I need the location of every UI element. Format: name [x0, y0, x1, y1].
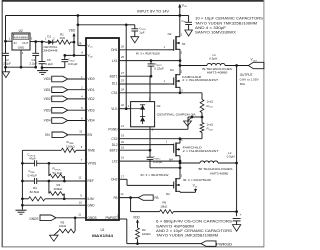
- ground R5 arrow: [50, 231, 59, 241]
- wire FB: [119, 192, 138, 199]
- svg-text:SANYO 4SP680M: SANYO 4SP680M: [156, 224, 195, 228]
- svg-text:AND 2 × 10µF CERAMIC CAPACITOR: AND 2 × 10µF CERAMIC CAPACITORS: [156, 229, 232, 233]
- svg-text:N1: N1: [182, 42, 186, 46]
- capacitor CIN: [180, 16, 192, 31]
- capacitor C2 2.2uF: [2, 41, 11, 67]
- svg-text:25: 25: [121, 55, 124, 59]
- resistor R6 10k: [131, 198, 237, 214]
- wire DL2 gate drive: [119, 140, 169, 145]
- svg-text:10kΩ: 10kΩ: [160, 205, 168, 209]
- wire PGND: [119, 117, 192, 129]
- transistor N1 high-side phase1: [168, 32, 186, 54]
- svg-text:N2: N2: [168, 32, 172, 36]
- svg-text:IR: 3 × IRLR7811W: IR: 3 × IRLR7811W: [141, 173, 169, 177]
- svg-text:100kΩ: 100kΩ: [142, 232, 152, 236]
- label OUTPUT spec: [240, 73, 259, 86]
- svg-text:VID3: VID3: [88, 108, 95, 112]
- svg-text:PGND: PGND: [108, 128, 118, 132]
- svg-text:TIME: TIME: [88, 149, 96, 153]
- svg-text:10kΩ: 10kΩ: [59, 224, 67, 228]
- svg-text:60A: 60A: [240, 82, 245, 86]
- svg-text:VID2: VID2: [44, 97, 51, 101]
- svg-text:DD: DD: [90, 56, 94, 58]
- capacitor C5 2.2uF: [39, 41, 54, 71]
- wire VIN to N1 drain: [179, 16, 181, 37]
- svg-text:N2: N2: [166, 192, 170, 196]
- svg-text:13: 13: [117, 214, 120, 218]
- wire LX1 node column: [179, 49, 182, 74]
- wire LX1: [119, 55, 181, 62]
- diode D1 CENTRAL CMHD4448: [42, 35, 58, 53]
- svg-text:BST1: BST1: [110, 74, 118, 78]
- transistor N2 high-side phase2: [166, 175, 183, 196]
- resistor RTIME 120k: [22, 140, 86, 152]
- svg-text:FB: FB: [155, 196, 159, 200]
- svg-text:VID1: VID1: [44, 88, 51, 92]
- svg-text:VID4: VID4: [88, 119, 95, 123]
- ground CIN: [185, 30, 193, 36]
- svg-text:51.1kΩ: 51.1kΩ: [53, 171, 63, 175]
- svg-text:0.5µH: 0.5µH: [227, 154, 235, 158]
- svg-text:GNDS: GNDS: [29, 217, 38, 221]
- svg-text:2 × ISL9N303AS3ST: 2 × ISL9N303AS3ST: [183, 149, 219, 153]
- svg-text:21: 21: [121, 124, 124, 128]
- wire D2 anode to BST rail: [149, 76, 151, 101]
- wire D2 cathode to BST2: [149, 127, 151, 150]
- wire PWRGD: [117, 214, 202, 245]
- wire LX2 node column: [179, 156, 182, 179]
- svg-text:N3: N3: [170, 68, 174, 72]
- svg-text:ILIM: ILIM: [88, 197, 94, 201]
- svg-text:6 × 680µF/4V OS-CON CAPACITORS: 6 × 680µF/4V OS-CON CAPACITORS: [156, 220, 232, 224]
- svg-text:LX2: LX2: [112, 159, 118, 163]
- svg-text:MAX8880: MAX8880: [14, 36, 29, 39]
- svg-text:REF: REF: [88, 179, 94, 183]
- label BI TECHNOLOGIES L1: [202, 67, 232, 74]
- capacitor CVPOS 47pF: [22, 153, 86, 167]
- resistor RCS2 1mohm: [200, 117, 214, 132]
- wire U2 GND stub: [20, 50, 22, 67]
- svg-text:HMT3-40880: HMT3-40880: [207, 70, 228, 74]
- pin names U1 right: [105, 48, 118, 220]
- svg-text:VID2: VID2: [88, 97, 95, 101]
- svg-text:D1: D1: [47, 35, 51, 39]
- ground C5 CVDD: [37, 70, 48, 72]
- svg-text:17: 17: [121, 175, 124, 179]
- label output capacitor note: [156, 220, 232, 238]
- input connector GNDS: [29, 212, 86, 221]
- svg-text:VID0: VID0: [88, 77, 95, 81]
- svg-text:VID0: VID0: [44, 77, 51, 81]
- wire DH1 gate drive: [119, 44, 169, 49]
- wire VLG: [119, 25, 131, 110]
- svg-text:120kΩ: 120kΩ: [66, 144, 76, 148]
- label FAIRCHILD phase1: [182, 75, 218, 82]
- resistor R2 100k pull-up: [133, 215, 151, 243]
- svg-text:GNDS: GNDS: [88, 216, 97, 220]
- resistor R1 10ohm: [57, 32, 75, 44]
- ground U2 bus: [2, 67, 9, 77]
- svg-text:0.5µH: 0.5µH: [209, 57, 217, 61]
- output connector PWRGD: [201, 241, 233, 246]
- wire VOUT rail: [235, 66, 238, 217]
- svg-text:VDD: VDD: [69, 29, 76, 33]
- svg-text:CC: CC: [90, 47, 94, 49]
- svg-text:OUT: OUT: [253, 60, 258, 62]
- label BI TECHNOLOGIES L2: [199, 167, 233, 175]
- svg-text:2.2µF: 2.2µF: [30, 62, 38, 66]
- wire DL1 gate drive: [119, 79, 169, 84]
- capacitor CVLG 1uF: [126, 25, 146, 37]
- label FAIRCHILD phase2: [183, 146, 219, 153]
- wire U2 ground bus: [4, 66, 37, 69]
- svg-text:+: +: [240, 213, 242, 217]
- svg-text:VLG: VLG: [111, 107, 118, 111]
- svg-text:GND: GND: [88, 203, 96, 207]
- ground CVLG: [131, 37, 139, 43]
- svg-text:TAIYO YUDEN JMK325BJ106MM: TAIYO YUDEN JMK325BJ106MM: [156, 234, 218, 238]
- svg-text:SANYO 16MV330WX: SANYO 16MV330WX: [195, 31, 237, 35]
- label input capacitor note: [195, 17, 263, 35]
- output connector FB: [138, 195, 158, 200]
- svg-text:18: 18: [121, 145, 124, 149]
- resistor R5 10k: [59, 218, 76, 233]
- svg-text:0.22µF: 0.22µF: [154, 66, 164, 70]
- capacitor COUT: [233, 213, 242, 224]
- wire VIN top rail: [6, 16, 180, 42]
- wire U2 OUT: [30, 41, 45, 43]
- pin names U1 left: [88, 44, 97, 220]
- svg-text:20: 20: [121, 140, 124, 144]
- svg-text:1µF: 1µF: [139, 31, 144, 35]
- wire U2 IN: [4, 40, 12, 43]
- svg-text:FB: FB: [113, 196, 117, 200]
- svg-text:2.2µF: 2.2µF: [3, 62, 11, 66]
- voltage regulator U2 MAX8880: [9, 29, 33, 55]
- controller U1 MAX1544: [86, 38, 119, 238]
- input connector EN: [45, 130, 86, 138]
- input connector VID2: [44, 95, 86, 102]
- svg-text:EN: EN: [45, 133, 50, 137]
- wire C5 CVDD ground link: [41, 66, 65, 69]
- wire VCC from VIN rail: [77, 14, 86, 45]
- svg-text:0.47µF: 0.47µF: [28, 174, 38, 178]
- svg-text:12: 12: [78, 176, 81, 180]
- input connector VID3: [44, 106, 86, 113]
- wire GND pin: [22, 200, 86, 205]
- svg-text:13: 13: [79, 130, 82, 134]
- svg-text:HMT3-40880: HMT3-40880: [210, 172, 228, 176]
- resistor RCS1 1mohm: [200, 99, 214, 117]
- wire CS2 current sense: [119, 132, 202, 140]
- svg-text:BST2: BST2: [110, 148, 118, 152]
- svg-text:INPUT: 8V TO 14V: INPUT: 8V TO 14V: [137, 10, 170, 14]
- capacitor CBST2 0.22uF: [147, 150, 163, 168]
- svg-text:CMHD4448: CMHD4448: [42, 49, 58, 53]
- svg-text:D2: D2: [157, 104, 161, 108]
- svg-text:0.22µF: 0.22µF: [153, 160, 163, 164]
- resistor RVPOS 51.1k: [49, 163, 65, 181]
- wire VDD to pin: [65, 54, 86, 56]
- label VOUT: [251, 58, 259, 63]
- resistor R4 82.5k: [22, 186, 86, 201]
- wire LX2: [119, 156, 181, 163]
- svg-text:VPOS: VPOS: [88, 162, 97, 166]
- capacitor CBST1 0.22uF: [148, 61, 164, 77]
- svg-text:10: 10: [79, 200, 82, 204]
- svg-text:CS1: CS1: [111, 91, 117, 95]
- svg-text:IR: 2 × IRLR7811W: IR: 2 × IRLR7811W: [183, 178, 211, 182]
- transistor N2 low-side phase1: [169, 68, 184, 93]
- svg-text:28: 28: [78, 41, 81, 45]
- svg-text:IN: IN: [14, 41, 17, 45]
- svg-text:OUT: OUT: [22, 41, 28, 45]
- svg-text:VID4: VID4: [44, 119, 51, 123]
- svg-text:DL2: DL2: [112, 143, 118, 147]
- svg-text:BI TECHNOLOGIES: BI TECHNOLOGIES: [199, 167, 233, 171]
- wire N2 source to CS1: [179, 87, 181, 93]
- capacitor CVDD 0.01uF: [61, 54, 77, 68]
- wire BST2: [119, 145, 151, 151]
- svg-text:CS2: CS2: [111, 137, 117, 141]
- diode D2 CENTRAL CMPSH-3A: [131, 98, 196, 132]
- svg-text:DH1: DH1: [111, 48, 118, 52]
- svg-text:26: 26: [121, 44, 124, 48]
- svg-text:MAX1544: MAX1544: [92, 234, 113, 238]
- inductor L1 0.5uH: [180, 53, 248, 65]
- wire CS1 current sense: [119, 88, 202, 100]
- capacitor CREF 0.47uF: [22, 169, 86, 184]
- wire DH2 gate drive: [119, 175, 169, 186]
- ground COUT: [232, 225, 240, 232]
- svg-text:LX1: LX1: [112, 59, 118, 63]
- output connector VOUT: [235, 62, 264, 68]
- svg-text:27: 27: [121, 71, 124, 75]
- svg-text:200kΩ: 200kΩ: [54, 187, 64, 191]
- svg-text:15: 15: [121, 156, 124, 160]
- wire BST1: [119, 71, 152, 78]
- svg-text:47pF: 47pF: [29, 157, 36, 161]
- wire VLG feed top: [77, 23, 128, 26]
- svg-text:VDD: VDD: [133, 215, 140, 219]
- svg-text:24: 24: [121, 88, 124, 92]
- svg-text:2.2µF: 2.2µF: [45, 62, 53, 66]
- transistor N4 low-side phase2: [169, 139, 184, 162]
- inductor L2 0.5uH: [180, 151, 237, 163]
- svg-text:AND 4 × 330µF: AND 4 × 330µF: [195, 26, 226, 30]
- svg-text:U1: U1: [100, 228, 104, 232]
- wire CBST2 to LX2 node: [150, 166, 181, 169]
- svg-text:10Ω: 10Ω: [59, 36, 65, 40]
- svg-text:10 × 10µF CERAMIC CAPACITORS: 10 × 10µF CERAMIC CAPACITORS: [195, 17, 263, 21]
- svg-text:U2: U2: [19, 29, 23, 33]
- svg-text:19: 19: [121, 133, 124, 137]
- svg-text:0.01µF: 0.01µF: [68, 62, 78, 66]
- wire left analog rail: [21, 150, 24, 209]
- resistor R3 200k: [49, 181, 66, 200]
- svg-text:VID3: VID3: [44, 108, 51, 112]
- capacitor C1 2.2uF: [30, 40, 40, 67]
- svg-text:EN: EN: [88, 133, 93, 137]
- ground left analog rail: [16, 209, 27, 211]
- node VDD supply arrow: [69, 29, 76, 57]
- input connector VID4: [44, 116, 86, 123]
- svg-text:0.8V to 1.55V: 0.8V to 1.55V: [240, 78, 259, 82]
- svg-text:OUTPUT: OUTPUT: [240, 73, 253, 77]
- svg-text:23: 23: [121, 79, 124, 83]
- ground PGND arrow: [188, 117, 193, 121]
- svg-text:VID1: VID1: [88, 88, 95, 92]
- svg-text:82.5kΩ: 82.5kΩ: [30, 190, 40, 194]
- svg-text:CENTRAL CMPSH-3A: CENTRAL CMPSH-3A: [157, 112, 196, 116]
- svg-text:IR: 3 × IRLR7811W: IR: 3 × IRLR7811W: [136, 52, 160, 56]
- svg-text:DH2: DH2: [111, 178, 118, 182]
- input connector VID1: [44, 86, 86, 93]
- svg-text:N4: N4: [169, 158, 173, 162]
- svg-text:PWRGD: PWRGD: [216, 242, 233, 246]
- svg-text:2 × ISL9N303AS3ST: 2 × ISL9N303AS3ST: [182, 78, 218, 82]
- node VIN arrow: [178, 3, 187, 16]
- svg-text:22: 22: [121, 103, 124, 107]
- input connector VID0: [44, 75, 86, 82]
- node PGND sense junction: [191, 116, 204, 119]
- svg-text:DL1: DL1: [112, 81, 118, 85]
- svg-text:14: 14: [121, 192, 124, 196]
- svg-text:TAIYO YUDEN TMK325BJ106MM: TAIYO YUDEN TMK325BJ106MM: [195, 21, 257, 25]
- node VIN phase2: [180, 184, 198, 193]
- svg-text:GND: GND: [18, 46, 24, 50]
